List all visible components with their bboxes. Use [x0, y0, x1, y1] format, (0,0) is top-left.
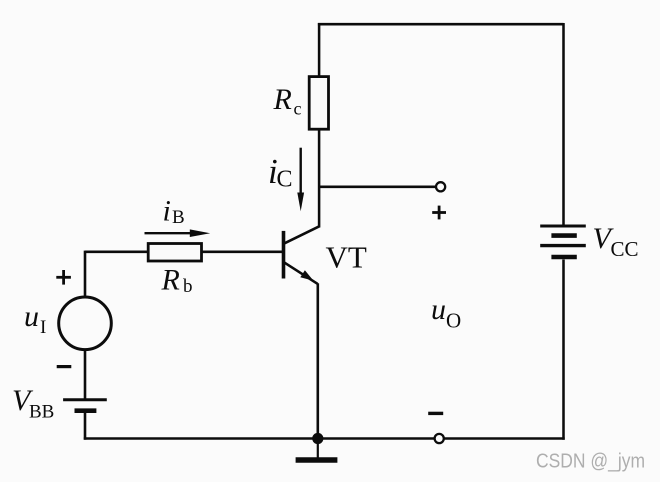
svg-text:B: B — [172, 207, 185, 228]
current arrow iC — [300, 148, 302, 195]
wire right rail upper — [562, 23, 565, 226]
svg-text:CC: CC — [611, 237, 639, 261]
minus sign input — [57, 365, 72, 368]
wire Rc top lead — [318, 23, 321, 78]
wire emitter vertical — [316, 283, 319, 438]
svg-text:VT: VT — [326, 240, 367, 275]
svg-text:u: u — [24, 300, 39, 333]
ground bar — [296, 457, 338, 462]
svg-text:b: b — [183, 276, 193, 297]
minus sign output — [428, 412, 443, 415]
terminal node bottom — [435, 434, 444, 443]
source uI — [59, 297, 112, 350]
svg-text:i: i — [163, 194, 171, 227]
wire input left vertical upper — [84, 251, 87, 298]
battery VCC short plate 2 — [551, 255, 576, 260]
svg-text:O: O — [446, 308, 461, 332]
wire bottom rail — [84, 437, 565, 440]
wire right rail lower — [562, 260, 565, 440]
battery VCC long plate 1 — [540, 225, 586, 228]
wire base — [85, 251, 283, 254]
ground stub — [317, 439, 319, 458]
resistor Rb — [148, 244, 201, 262]
transistor VT emitter stroke with arrow — [284, 262, 318, 284]
wire input left vertical lower — [84, 349, 87, 398]
plus sign output — [432, 211, 446, 214]
svg-text:c: c — [294, 99, 302, 119]
wire top rail — [318, 23, 564, 26]
svg-text:BB: BB — [29, 402, 54, 423]
wire output top — [318, 186, 435, 189]
transistor VT collector stroke — [284, 226, 319, 243]
svg-text:C: C — [277, 166, 293, 192]
battery VBB short plate — [75, 408, 97, 413]
battery VCC long plate 2 — [540, 244, 586, 247]
svg-text:R: R — [161, 263, 180, 296]
svg-text:I: I — [40, 317, 46, 338]
svg-text:R: R — [273, 83, 292, 116]
current arrow iB — [145, 232, 193, 234]
battery VBB long plate — [63, 398, 107, 401]
battery VCC short plate 1 — [551, 233, 576, 238]
wire collector vertical — [318, 129, 321, 227]
plus sign input — [56, 276, 71, 279]
wire VBB to bottom rail — [84, 413, 87, 440]
resistor Rc — [309, 77, 328, 130]
svg-text:CSDN @_jym: CSDN @_jym — [536, 450, 645, 473]
transistor VT base bar — [282, 231, 286, 279]
terminal node top — [436, 182, 445, 191]
junction node — [312, 433, 323, 444]
svg-text:u: u — [431, 293, 446, 326]
